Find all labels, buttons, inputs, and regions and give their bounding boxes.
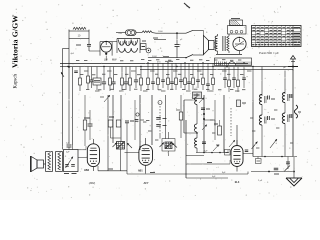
svg-text:AB2: AB2 bbox=[84, 169, 90, 172]
svg-text:AF7: AF7 bbox=[144, 181, 149, 185]
svg-text:2 µF: 2 µF bbox=[258, 180, 263, 182]
svg-text:EL3: EL3 bbox=[235, 181, 240, 184]
svg-text:Kapsch: Kapsch bbox=[14, 74, 19, 89]
svg-text:Viktoria G/GW: Viktoria G/GW bbox=[11, 15, 20, 68]
svg-text:AB1: AB1 bbox=[138, 170, 143, 173]
svg-text:MW: MW bbox=[112, 59, 117, 62]
svg-text:(AB2): (AB2) bbox=[89, 182, 96, 185]
